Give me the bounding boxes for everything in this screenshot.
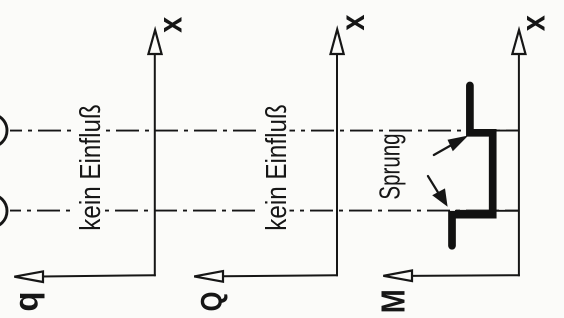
dash-dot locator line lower <box>10 210 519 212</box>
M-diagram M-axis arrowhead <box>383 271 412 282</box>
q-diagram q-axis arrowhead <box>14 271 43 282</box>
Q-diagram Q-axis arrowhead <box>194 271 223 282</box>
Q-diagram x-axis arrowhead <box>331 29 344 54</box>
q-diagram x-axis arrowhead <box>148 30 161 54</box>
leader arrow to lower jump corner <box>428 176 448 207</box>
svg-text:x: x <box>334 14 371 31</box>
q-diagram q-axis line <box>42 275 156 276</box>
svg-text:x: x <box>152 16 189 33</box>
M-diagram M-axis line <box>411 274 520 277</box>
svg-text:q: q <box>8 291 45 311</box>
annotation kein Einfluss (q diagram) <box>74 102 104 232</box>
svg-text:Q: Q <box>195 292 228 312</box>
solid locator segment lower (right of jump) <box>455 210 519 212</box>
svg-text:M: M <box>375 289 412 313</box>
dash-dot locator line upper <box>10 130 519 132</box>
moment circle 2 (lower left edge) <box>0 195 7 228</box>
svg-text:kein Einfluß: kein Einfluß <box>260 104 292 231</box>
solid locator segment upper (right of jump) <box>495 130 519 132</box>
svg-text:x: x <box>515 14 552 31</box>
Q-diagram x-axis line <box>336 53 338 276</box>
q-diagram x-axis line <box>154 53 156 276</box>
M-diagram x-axis arrowhead <box>512 30 525 54</box>
M-diagram x-axis line <box>518 53 520 276</box>
Q-diagram Q-axis line <box>222 274 338 277</box>
annotation kein Einfluss (Q diagram) <box>260 102 290 232</box>
M-diagram thick bending-moment curve with jump <box>452 86 493 246</box>
svg-text:kein Einfluß: kein Einfluß <box>74 104 106 231</box>
leader arrow to upper jump corner <box>434 136 469 156</box>
svg-text:Sprung: Sprung <box>375 133 406 199</box>
moment circle 1 (upper left edge) <box>0 114 7 147</box>
